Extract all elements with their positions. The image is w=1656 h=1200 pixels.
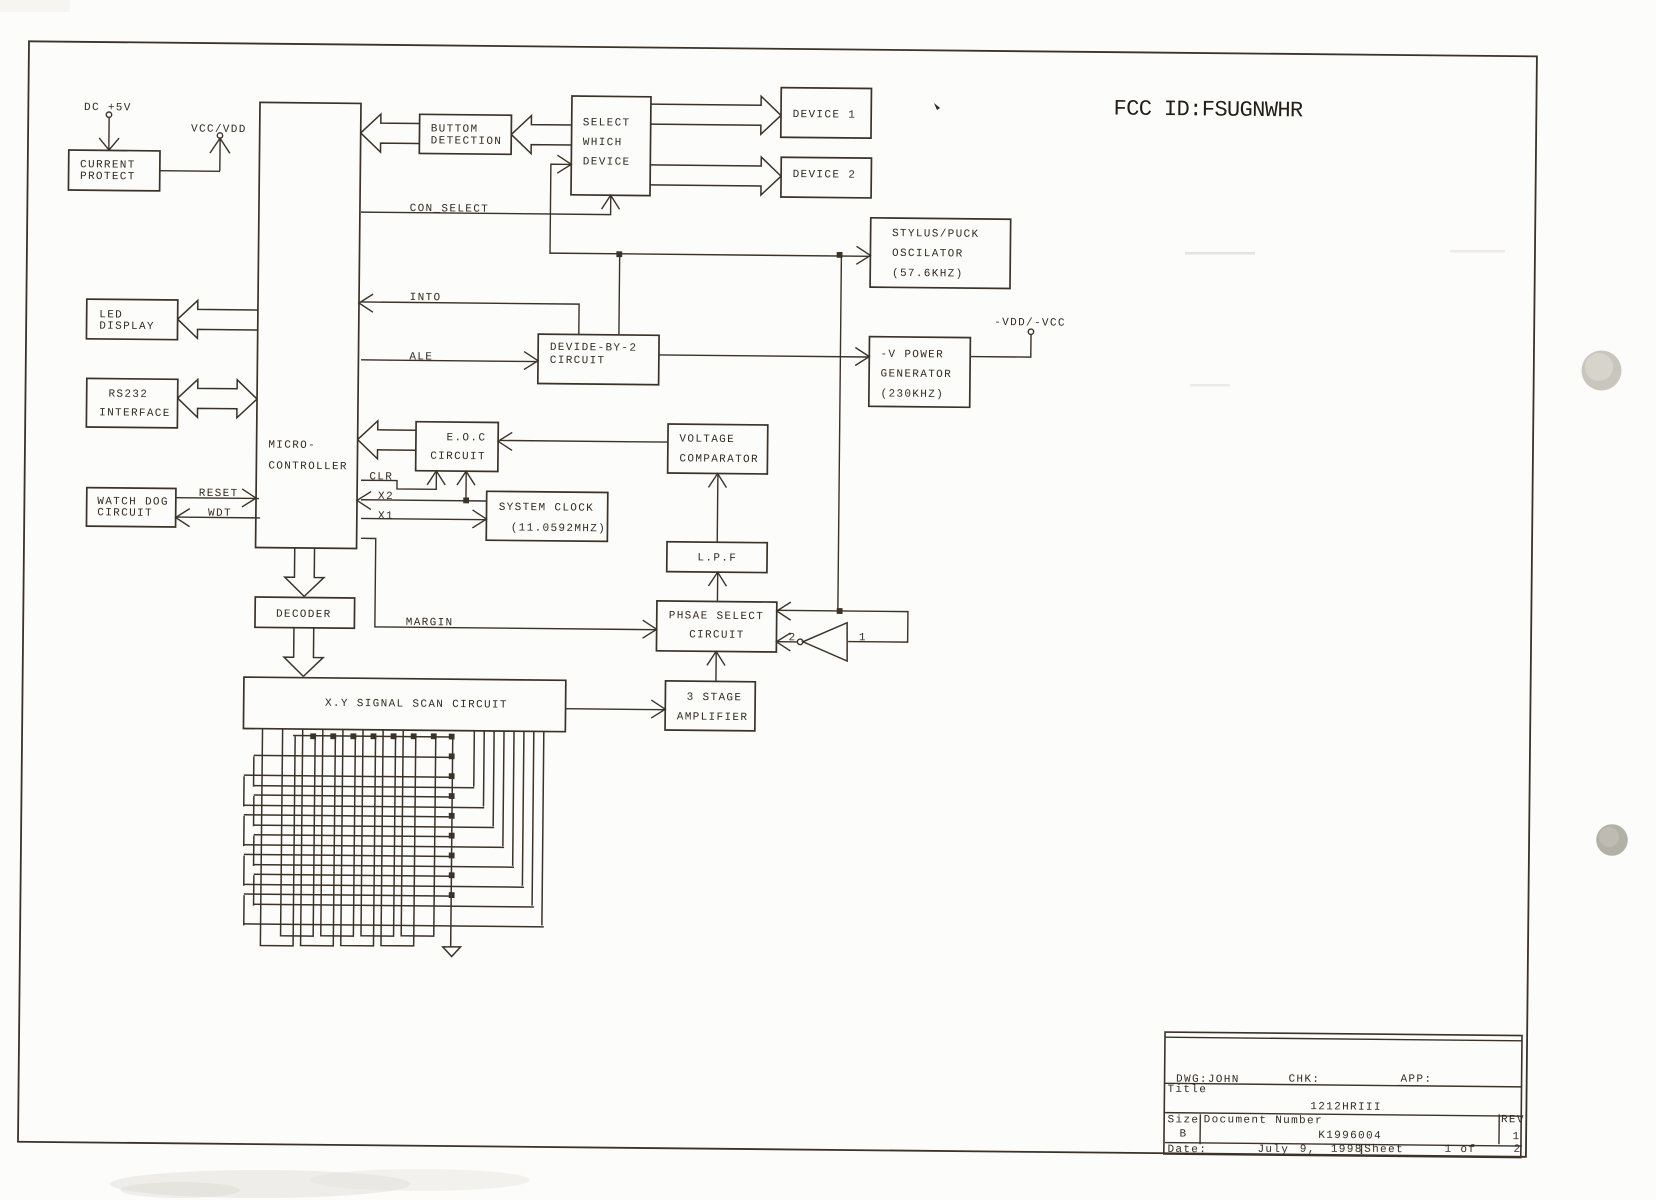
wire DC+5V down to CURRENT PROTECT <box>108 117 110 149</box>
Y coil loop 7 return wire <box>254 874 452 876</box>
svg-text:1: 1 <box>1512 1131 1520 1143</box>
Y coil loop 2 left connector <box>243 776 245 806</box>
svg-text:X1: X1 <box>378 511 394 523</box>
svg-text:MICRO-: MICRO- <box>268 440 316 452</box>
hole punch upper <box>1582 351 1622 391</box>
block WATCH DOG CIRCUIT <box>86 488 175 527</box>
arrowhead MARGIN into PHSAE SELECT <box>643 620 657 638</box>
svg-text:DEVIDE-BY-2: DEVIDE-BY-2 <box>550 342 638 355</box>
wire DEVIDE-BY-2 to -V POWER GENERATOR <box>659 355 868 357</box>
junction dot at phase branch <box>837 252 843 258</box>
wire X2 <box>361 500 487 501</box>
svg-text:STYLUS/PUCK: STYLUS/PUCK <box>892 228 980 241</box>
arrowhead into -V POWER GENERATOR <box>855 347 869 365</box>
svg-text:CIRCUIT: CIRCUIT <box>689 629 745 642</box>
svg-text:(230KHZ): (230KHZ) <box>880 388 944 401</box>
hole punch lower <box>1596 824 1628 856</box>
wire 57.6KHZ line to STYLUS/PUCK OSCILATOR <box>550 253 869 256</box>
Y coil loop 1 riser to X.Y SIGNAL SCAN CIRCUIT <box>473 731 476 787</box>
svg-text:FCC ID:FSUGNWHR: FCC ID:FSUGNWHR <box>1113 97 1303 124</box>
faint scan wash bottom strip <box>110 1170 410 1198</box>
block X.Y SIGNAL SCAN CIRCUIT <box>243 677 565 732</box>
arrowhead phase-1 into PHSAE SELECT right edge <box>777 602 791 620</box>
svg-text:CURRENT: CURRENT <box>80 159 136 172</box>
junction dot Y coil 1 on right bus <box>449 753 455 759</box>
wire RESET <box>176 497 259 500</box>
svg-text:1212HRIII: 1212HRIII <box>1310 1101 1382 1114</box>
block 3 STAGE AMPLIFIER <box>665 681 755 731</box>
svg-text:CLR: CLR <box>369 471 393 483</box>
wire X2 branch to E.O.C <box>465 472 467 501</box>
svg-text:CIRCUIT: CIRCUIT <box>550 355 606 368</box>
title block divider above Date row <box>1165 1143 1522 1147</box>
wire 3 STAGE AMPLIFIER to PHSAE SELECT <box>715 652 717 681</box>
inverter U2 output bubble <box>797 639 803 645</box>
svg-text:AMPLIFIER: AMPLIFIER <box>677 711 749 724</box>
X coil loop 6 <box>361 730 396 936</box>
svg-text:VOLTAGE: VOLTAGE <box>679 434 735 447</box>
Y coil loop 1 left connector <box>253 756 255 786</box>
svg-text:Date:: Date: <box>1167 1144 1207 1156</box>
svg-text:-V POWER: -V POWER <box>880 349 944 362</box>
svg-text:July: July <box>1257 1144 1289 1156</box>
Y coil loop 5 left connector <box>253 836 255 866</box>
scan speck near FCC ID <box>934 103 940 110</box>
svg-text:L.P.F: L.P.F <box>697 552 737 564</box>
svg-text:APP:: APP: <box>1400 1074 1432 1086</box>
wire CLR <box>361 471 436 489</box>
wire branch down to DEVIDE-BY-2 top <box>618 254 621 334</box>
svg-text:Title: Title <box>1167 1084 1207 1096</box>
block MICRO-CONTROLLER U1 <box>256 102 361 548</box>
arrowhead into VOLTAGE COMPARATOR bottom <box>708 473 726 487</box>
junction dot Y coil 6 on right bus <box>449 853 455 859</box>
junction dot X coil 5 on top bus <box>371 733 377 739</box>
VCC/VDD arrow barbs <box>210 138 230 153</box>
wire phase-1 line <box>778 610 908 642</box>
ground symbol <box>443 947 461 957</box>
junction dot X coil 8 on top bus <box>431 733 437 739</box>
wire VCC/VDD stem <box>219 138 221 171</box>
block DEVICE 1 <box>781 88 872 138</box>
svg-text:Size: Size <box>1168 1114 1200 1126</box>
block arrow MICRO-CONTROLLER to DECODER <box>285 548 305 597</box>
Y coil loop 2 return wire <box>244 775 452 777</box>
faint scan streaks right of stylus oscillator <box>1185 252 1255 255</box>
arrowhead into SELECT left edge <box>557 155 571 173</box>
block arrow SELECT WHICH DEVICE to DEVICE 1 <box>651 95 781 115</box>
arrowhead RESET into MICRO-CONTROLLER <box>242 489 256 507</box>
svg-text:3 STAGE: 3 STAGE <box>687 692 743 705</box>
svg-text:E.O.C: E.O.C <box>446 432 486 444</box>
arrowhead into STYLUS/PUCK OSCILATOR <box>856 246 870 264</box>
wire select-feed riser <box>550 164 571 254</box>
junction dot X coil 7 on top bus <box>411 733 417 739</box>
Y coil loop 3 hot wire <box>254 825 494 827</box>
Y coil loop 8 left connector <box>243 895 245 925</box>
Y coil loop 2 riser to X.Y SIGNAL SCAN CIRCUIT <box>482 731 485 807</box>
junction dot Y coil 4 on right bus <box>449 813 455 819</box>
junction dot X coil 6 on top bus <box>391 733 397 739</box>
svg-text:GENERATOR: GENERATOR <box>880 368 952 381</box>
svg-text:DETECTION: DETECTION <box>431 135 503 148</box>
arrowhead phase-2 into PHSAE SELECT right edge <box>776 633 790 651</box>
block L.P.F <box>667 542 767 573</box>
svg-text:COMPARATOR: COMPARATOR <box>679 453 759 466</box>
grid top bus wire <box>293 735 452 737</box>
title block divider under DWG row <box>1165 1083 1522 1087</box>
svg-text:2: 2 <box>789 632 797 644</box>
block CURRENT PROTECT <box>68 150 160 191</box>
svg-text:X2: X2 <box>378 491 394 503</box>
svg-text:CHK:: CHK: <box>1288 1074 1320 1086</box>
X coil loop 8 <box>401 730 436 936</box>
block RS232 INTERFACE <box>86 378 177 428</box>
block arrow DECODER to X.Y SIGNAL SCAN CIRCUIT <box>284 628 304 677</box>
Y coil loop 5 return wire <box>254 835 452 837</box>
svg-text:DEVICE 2: DEVICE 2 <box>793 169 857 182</box>
svg-text:-VDD/-VCC: -VDD/-VCC <box>994 317 1066 330</box>
svg-text:K1996004: K1996004 <box>1318 1130 1382 1143</box>
Y coil loop 5 riser to X.Y SIGNAL SCAN CIRCUIT <box>513 731 514 866</box>
junction dot X coil 2 on top bus <box>310 733 316 739</box>
Y coil loop 7 hot wire <box>254 904 534 907</box>
svg-text:SYSTEM CLOCK: SYSTEM CLOCK <box>499 502 595 515</box>
title block vertical divider Document/REV <box>1498 1114 1500 1144</box>
wire MARGIN from MICRO-CONTROLLER to PHSAE SELECT <box>360 538 657 629</box>
wire -V output to -VDD/-VCC <box>970 334 1031 357</box>
arrowhead CLR into E.O.C bottom <box>427 471 445 485</box>
block arrow BUTTOM DETECTION to MICRO-CONTROLLER <box>361 114 420 134</box>
wire ALE to DEVIDE-BY-2 <box>361 360 537 362</box>
wire CURRENT PROTECT to VCC/VDD <box>160 170 220 173</box>
node DC +5V terminal circle <box>106 112 111 117</box>
block E.O.C CIRCUIT <box>416 422 499 472</box>
block SYSTEM CLOCK <box>486 491 608 541</box>
svg-text:INTERFACE: INTERFACE <box>99 407 171 420</box>
title block outer frame <box>1164 1032 1522 1158</box>
Y coil loop 7 riser to X.Y SIGNAL SCAN CIRCUIT <box>532 731 534 905</box>
svg-text:(57.6KHZ): (57.6KHZ) <box>892 268 964 281</box>
arrowhead X2 branch into E.O.C bottom <box>457 471 475 485</box>
Y coil loop 6 riser to X.Y SIGNAL SCAN CIRCUIT <box>522 731 524 885</box>
svg-text:1 of: 1 of <box>1444 1144 1476 1156</box>
arrowhead INTO into MICRO-CONTROLLER <box>359 294 373 312</box>
svg-text:B: B <box>1179 1128 1187 1140</box>
junction dot X2 branch <box>463 497 469 503</box>
block arrow RS232 INTERFACE to MICRO-CONTROLLER (double headed) <box>178 379 258 399</box>
arrowhead WDT into WATCH DOG CIRCUIT <box>176 508 190 526</box>
X coil loop 5 <box>341 729 376 945</box>
arrowhead CON_SELECT into SELECT bottom <box>602 195 620 209</box>
svg-text:CIRCUIT: CIRCUIT <box>97 507 153 520</box>
Y coil loop 3 riser to X.Y SIGNAL SCAN CIRCUIT <box>492 731 495 826</box>
junction dot X coil 4 on top bus <box>350 733 356 739</box>
Y coil loop 6 return wire <box>244 854 452 856</box>
wire CON_SELECT from MICRO-CONTROLLER to SELECT WHICH DEVICE <box>361 194 611 215</box>
block -V POWER GENERATOR <box>869 337 971 408</box>
Y coil loop 7 left connector <box>253 875 255 905</box>
svg-text:SELECT: SELECT <box>583 117 631 129</box>
arrowhead into PHSAE SELECT bottom <box>707 651 725 665</box>
Y coil loop 6 left connector <box>243 855 245 885</box>
block BUTTOM DETECTION <box>419 114 511 154</box>
title block vertical divider Size/Document <box>1199 1114 1201 1144</box>
Y coil loop 1 return wire <box>254 755 452 757</box>
arrowhead into CURRENT PROTECT top <box>99 138 119 150</box>
block arrow SELECT WHICH DEVICE to DEVICE 2 <box>650 156 781 176</box>
junction dot X coil 3 on top bus <box>330 733 336 739</box>
svg-text:PROTECT: PROTECT <box>80 171 136 184</box>
block SELECT WHICH DEVICE <box>571 96 651 196</box>
wire WDT <box>177 516 260 519</box>
Y coil loop 2 hot wire <box>244 805 484 807</box>
block arrow E.O.C CIRCUIT to MICRO-CONTROLLER <box>358 421 416 441</box>
title block inner top line <box>1165 1037 1522 1041</box>
svg-text:DEVICE 1: DEVICE 1 <box>793 109 857 122</box>
Y coil loop 6 hot wire <box>244 884 524 887</box>
Y coil loop 4 hot wire <box>244 845 504 848</box>
svg-text:RS232: RS232 <box>108 389 148 401</box>
arrowhead into L.P.F bottom <box>708 572 726 586</box>
wire INTO from DEVIDE-BY-2 <box>361 302 579 334</box>
Y coil loop 5 hot wire <box>254 865 514 868</box>
X coil loop 2 <box>281 729 316 936</box>
svg-text:BUTTOM: BUTTOM <box>431 123 479 135</box>
Y coil loop 8 hot wire <box>244 924 544 927</box>
junction dot at devide-by-2 branch <box>616 251 622 257</box>
faint scan smudge top-left <box>0 0 70 12</box>
wire X1 <box>361 518 486 519</box>
arrowhead into E.O.C right edge <box>498 432 512 450</box>
svg-text:2: 2 <box>1513 1144 1521 1156</box>
junction dot Y coil 5 on right bus <box>449 833 455 839</box>
wire phase branch down to phase select line <box>838 255 842 611</box>
grid right bus wire to ground <box>451 736 453 947</box>
X coil loop 3 <box>301 729 336 946</box>
X coil loop 4 <box>321 729 356 936</box>
junction dot Y coil 8 on right bus <box>449 892 455 898</box>
wire X.Y SIGNAL SCAN CIRCUIT to 3 STAGE AMPLIFIER <box>566 708 664 711</box>
svg-text:9,: 9, <box>1300 1144 1316 1156</box>
junction dot on phase-1 line <box>837 608 843 614</box>
svg-text:X.Y SIGNAL SCAN CIRCUIT: X.Y SIGNAL SCAN CIRCUIT <box>325 698 508 712</box>
block STYLUS/PUCK OSCILATOR <box>870 218 1011 289</box>
wire VOLTAGE COMPARATOR to E.O.C <box>499 440 668 442</box>
node -VDD/-VCC terminal circle <box>1028 329 1033 334</box>
Y coil loop 4 riser to X.Y SIGNAL SCAN CIRCUIT <box>503 731 504 846</box>
block DECODER <box>255 597 355 628</box>
Y coil loop 3 left connector <box>253 796 255 826</box>
Y coil loop 3 return wire <box>254 795 452 797</box>
X coil loop 7 <box>381 730 416 946</box>
svg-text:Document Number: Document Number <box>1204 1114 1323 1127</box>
svg-text:VCC/VDD: VCC/VDD <box>191 124 247 137</box>
title block vertical divider Date/Sheet <box>1360 1144 1362 1154</box>
Y coil loop 4 left connector <box>243 816 245 846</box>
node VCC/VDD terminal circle <box>217 133 222 138</box>
junction dot Y coil 7 on right bus <box>449 872 455 878</box>
svg-text:OSCILATOR: OSCILATOR <box>892 248 964 261</box>
wire inverter output to PHSAE SELECT <box>778 641 797 643</box>
title block divider under Title row <box>1165 1113 1522 1117</box>
inverter U2 triangle <box>803 622 848 661</box>
wire PHSAE SELECT to L.P.F <box>716 573 718 601</box>
svg-text:(11.0592MHZ): (11.0592MHZ) <box>511 522 607 535</box>
Y coil loop 8 return wire <box>244 894 452 896</box>
svg-text:DEVICE: DEVICE <box>583 156 631 168</box>
svg-text:DISPLAY: DISPLAY <box>99 321 155 334</box>
block DEVICE 2 <box>781 157 872 198</box>
junction dot Y coil 2 on right bus <box>449 773 455 779</box>
block DEVIDE-BY-2 CIRCUIT <box>538 334 659 385</box>
wire L.P.F to VOLTAGE COMPARATOR <box>716 474 719 542</box>
arrowhead into 3 STAGE AMPLIFIER <box>651 700 665 718</box>
svg-text:CIRCUIT: CIRCUIT <box>430 451 486 464</box>
svg-text:PHSAE SELECT: PHSAE SELECT <box>669 610 765 623</box>
svg-text:DECODER: DECODER <box>276 609 332 622</box>
block arrow MICRO-CONTROLLER to LED DISPLAY <box>178 300 258 320</box>
svg-text:WHICH: WHICH <box>583 137 623 149</box>
svg-text:1: 1 <box>859 632 867 644</box>
junction dot Y coil 3 on right bus <box>449 793 455 799</box>
block LED DISPLAY <box>86 299 177 340</box>
svg-text:REV: REV <box>1501 1114 1525 1126</box>
svg-text:CONTROLLER: CONTROLLER <box>268 461 348 474</box>
arrowhead X2 into MICRO-CONTROLLER <box>357 491 371 509</box>
svg-text:ALE: ALE <box>409 351 433 363</box>
junction dot top bus corner <box>449 734 455 740</box>
svg-text:Sheet: Sheet <box>1364 1144 1404 1156</box>
svg-text:1998: 1998 <box>1331 1144 1363 1156</box>
block arrow SELECT WHICH DEVICE to BUTTOM DETECTION <box>511 115 571 135</box>
Y coil loop 1 hot wire <box>254 786 475 788</box>
X coil loop 1 <box>260 729 295 946</box>
Y coil loop 8 riser to X.Y SIGNAL SCAN CIRCUIT <box>542 731 544 925</box>
block PHSAE SELECT CIRCUIT <box>656 601 776 652</box>
Y coil loop 4 return wire <box>244 815 452 817</box>
arrowhead ALE into DEVIDE-BY-2 <box>524 352 538 370</box>
arrowhead X1 into SYSTEM CLOCK <box>472 510 486 528</box>
block VOLTAGE COMPARATOR <box>668 424 768 474</box>
